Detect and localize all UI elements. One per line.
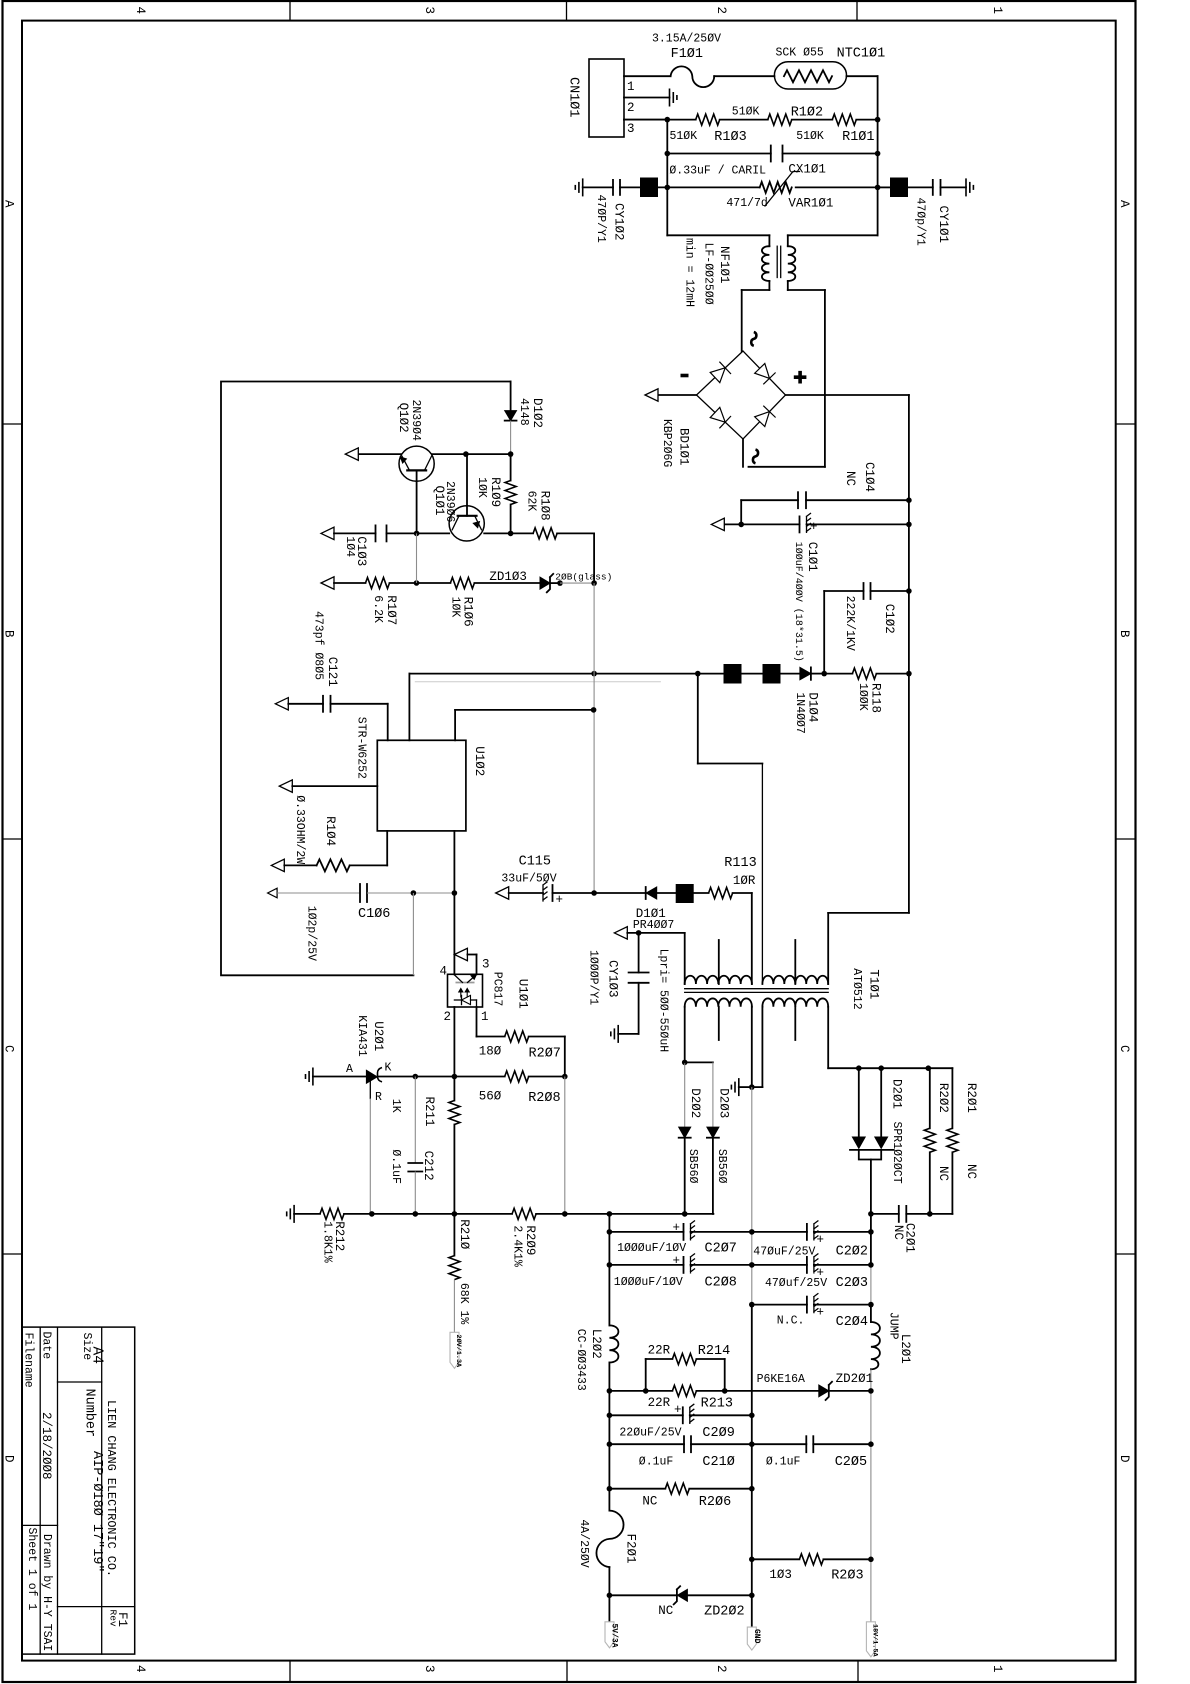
svg-text:CX1Ø1: CX1Ø1	[788, 163, 826, 177]
wire faint	[415, 681, 661, 683]
diode D104	[781, 667, 828, 733]
svg-text:1.8K1%: 1.8K1%	[321, 1221, 334, 1263]
svg-text:VAR1Ø1: VAR1Ø1	[788, 197, 833, 211]
dual diode D201	[850, 1068, 904, 1214]
svg-text:47ØP/Y1: 47ØP/Y1	[594, 195, 607, 243]
wire gnd bus	[749, 1087, 755, 1627]
ground CY103	[611, 1025, 618, 1043]
svg-text:NC: NC	[642, 1494, 657, 1508]
svg-text:Filename: Filename	[22, 1333, 35, 1388]
svg-text:Ø.1uF: Ø.1uF	[639, 1456, 674, 1469]
resistor R104	[271, 795, 387, 871]
svg-text:+: +	[817, 1233, 825, 1247]
wire U102 fb pin	[455, 707, 596, 740]
jumper blocks main row	[724, 664, 742, 684]
svg-text:B: B	[2, 630, 16, 638]
svg-text:+: +	[810, 520, 818, 534]
resistor R107	[334, 578, 450, 626]
resistor R208	[378, 1071, 568, 1106]
svg-text:SCK Ø55: SCK Ø55	[776, 47, 824, 60]
node U102 left pin	[279, 780, 377, 792]
svg-text:R2Ø6: R2Ø6	[699, 1495, 731, 1510]
capacitor C101	[741, 513, 909, 661]
svg-text:R118: R118	[869, 683, 883, 713]
svg-text:PC817: PC817	[491, 972, 504, 1007]
wire 18V bus	[868, 1214, 874, 1322]
svg-text:ZD2Ø1: ZD2Ø1	[836, 1372, 874, 1386]
svg-text:GND: GND	[752, 1629, 761, 1644]
svg-text:Date: Date	[40, 1332, 53, 1360]
transistor Q102	[396, 400, 434, 534]
ground CY102 side	[575, 178, 582, 196]
jumper block left	[640, 178, 658, 198]
svg-text:A4: A4	[89, 1347, 105, 1364]
node Q102 collector row	[345, 448, 513, 460]
svg-text:2N39Ø6: 2N39Ø6	[443, 481, 456, 523]
capacitor C115	[496, 855, 597, 908]
svg-text:D2Ø3: D2Ø3	[717, 1088, 731, 1118]
wire primary ground bus	[221, 382, 511, 976]
svg-text:51ØK: 51ØK	[670, 130, 698, 143]
svg-text:4: 4	[133, 1665, 147, 1673]
net tag 18V/1.5A	[866, 1622, 878, 1658]
resistor R214	[646, 1343, 731, 1391]
wire aux winding feed	[698, 674, 763, 984]
svg-text:51ØK: 51ØK	[732, 106, 760, 119]
svg-text:2N39Ø4: 2N39Ø4	[409, 400, 422, 442]
wire feedback vertical	[593, 583, 595, 893]
svg-text:3: 3	[627, 122, 635, 136]
svg-text:R1Ø8: R1Ø8	[538, 491, 552, 521]
svg-text:F1: F1	[115, 1612, 129, 1627]
capacitor CY102	[583, 180, 640, 243]
svg-text:2/18/2ØØ8: 2/18/2ØØ8	[39, 1412, 53, 1480]
svg-text:1K: 1K	[389, 1099, 402, 1113]
svg-text:D2Ø1: D2Ø1	[890, 1079, 904, 1109]
svg-text:6.2K: 6.2K	[371, 595, 384, 623]
svg-text:1Ø4: 1Ø4	[343, 536, 356, 557]
svg-text:2: 2	[444, 1010, 452, 1024]
pin 3	[624, 120, 667, 136]
svg-text:D2Ø2: D2Ø2	[688, 1088, 702, 1118]
net tag GND	[747, 1627, 761, 1650]
wire 18V output row	[868, 1211, 932, 1217]
svg-text:C1Ø6: C1Ø6	[358, 907, 390, 922]
svg-text:Ø.1uF: Ø.1uF	[766, 1456, 801, 1469]
svg-text:CC-ØØ3433: CC-ØØ3433	[574, 1329, 587, 1391]
svg-text:R213: R213	[701, 1396, 733, 1411]
svg-text:D1Ø2: D1Ø2	[530, 398, 544, 428]
svg-text:B: B	[1117, 630, 1131, 638]
svg-text:K: K	[385, 1062, 392, 1075]
svg-text:D1Ø4: D1Ø4	[806, 692, 820, 722]
ground R212	[287, 1205, 294, 1223]
resistor R109	[475, 454, 516, 536]
svg-text:D: D	[1117, 1455, 1131, 1463]
svg-text:C2Ø7: C2Ø7	[705, 1241, 737, 1256]
svg-text:CY1Ø2: CY1Ø2	[612, 203, 626, 241]
net tag 5V/3A	[605, 1622, 619, 1648]
svg-text:5V/3A: 5V/3A	[610, 1624, 619, 1648]
svg-text:NC: NC	[658, 1604, 673, 1618]
wire U102 drain pin	[408, 674, 410, 741]
svg-text:R2Ø2: R2Ø2	[936, 1083, 950, 1113]
diode D102	[505, 382, 544, 455]
thermistor NTC101	[774, 47, 885, 90]
svg-text:C1Ø1: C1Ø1	[805, 542, 819, 572]
svg-text:SB56Ø: SB56Ø	[715, 1149, 728, 1184]
svg-text:NC: NC	[891, 1225, 905, 1240]
svg-text:2: 2	[627, 101, 635, 115]
svg-text:+: +	[817, 1306, 825, 1320]
wire U102 vcc bus	[453, 831, 455, 974]
IC U102	[355, 717, 487, 831]
svg-text:U1Ø2: U1Ø2	[472, 746, 486, 776]
svg-text:2: 2	[714, 1665, 728, 1673]
svg-text:22ØuF/25V: 22ØuF/25V	[619, 1427, 681, 1440]
resistor R113	[694, 856, 757, 899]
node C101 arrow	[711, 518, 744, 530]
svg-text:L2Ø1: L2Ø1	[898, 1334, 912, 1364]
svg-text:C21Ø: C21Ø	[702, 1455, 734, 1470]
wire fb to output row	[564, 1077, 566, 1214]
svg-text:3.15A/25ØV: 3.15A/25ØV	[652, 33, 721, 46]
capacitor C121	[275, 611, 387, 740]
svg-text:SPR1Ø2ØCT: SPR1Ø2ØCT	[890, 1122, 903, 1184]
title block	[22, 1327, 135, 1654]
svg-text:F1Ø1: F1Ø1	[671, 47, 703, 62]
svg-text:CN1Ø1: CN1Ø1	[566, 77, 581, 118]
svg-text:SB56Ø: SB56Ø	[686, 1149, 699, 1184]
capacitor C209	[607, 1403, 752, 1441]
svg-text:ATØ512: ATØ512	[850, 968, 863, 1010]
svg-text:Drawn by H-Y TSAI: Drawn by H-Y TSAI	[40, 1534, 53, 1651]
wire U201 ref	[369, 1099, 371, 1215]
svg-text:ZD2Ø2: ZD2Ø2	[704, 1604, 745, 1619]
svg-text:4A/25ØV: 4A/25ØV	[577, 1519, 590, 1567]
svg-text:C: C	[1117, 1045, 1131, 1053]
svg-text:C121: C121	[325, 657, 339, 687]
svg-text:NC: NC	[936, 1166, 950, 1181]
wire opto pin2	[453, 1007, 455, 1077]
svg-text:Sheet 1 of 1: Sheet 1 of 1	[25, 1528, 38, 1611]
svg-text:NC: NC	[964, 1164, 978, 1179]
svg-text:33uF/5ØV: 33uF/5ØV	[501, 873, 556, 886]
svg-text:A: A	[1117, 200, 1131, 208]
svg-text:R: R	[375, 1091, 382, 1104]
svg-text:+: +	[673, 1221, 681, 1235]
pin 1	[624, 76, 671, 94]
capacitor CY103	[587, 933, 649, 1034]
svg-text:C2Ø5: C2Ø5	[835, 1455, 867, 1470]
svg-text:T1Ø1: T1Ø1	[866, 969, 880, 999]
varistor VAR101	[658, 172, 878, 211]
resistor R207	[477, 1007, 565, 1077]
svg-text:N.C.: N.C.	[777, 1315, 805, 1328]
svg-text:R1Ø9: R1Ø9	[488, 477, 502, 507]
svg-text:18Ø: 18Ø	[479, 1045, 502, 1059]
svg-text:Q1Ø2: Q1Ø2	[396, 403, 410, 433]
svg-text:CY1Ø3: CY1Ø3	[606, 960, 620, 998]
svg-text:4: 4	[133, 7, 147, 15]
svg-text:C: C	[2, 1045, 16, 1053]
svg-text:BD1Ø1: BD1Ø1	[677, 428, 691, 466]
svg-text:3: 3	[482, 958, 490, 972]
resistor R108	[525, 491, 595, 582]
svg-text:1ØR: 1ØR	[733, 874, 756, 888]
capacitor C207	[609, 1221, 751, 1257]
svg-text:18V/1.5A: 18V/1.5A	[870, 1624, 878, 1658]
svg-text:R214: R214	[698, 1344, 730, 1359]
capacitor C204	[752, 1294, 871, 1330]
svg-text:2ØV/1.3A: 2ØV/1.3A	[454, 1335, 463, 1369]
resistor R106	[449, 578, 541, 627]
svg-text:R1Ø6: R1Ø6	[461, 597, 475, 627]
svg-text:P6KE16A: P6KE16A	[757, 1373, 805, 1386]
svg-text:Lpri= 5ØØ-55ØuH: Lpri= 5ØØ-55ØuH	[657, 949, 670, 1053]
wire 5V bus	[607, 1214, 613, 1326]
svg-text:C212: C212	[421, 1151, 435, 1181]
wire Q102 base tap	[416, 533, 418, 583]
svg-text:4: 4	[440, 965, 448, 979]
svg-text:68K 1%: 68K 1%	[457, 1283, 470, 1325]
resistor R211	[389, 1077, 460, 1214]
resistor R101	[792, 114, 878, 145]
fuse F201	[577, 1511, 638, 1622]
wire C106 to ground bus	[412, 893, 414, 975]
svg-text:222K/1KV: 222K/1KV	[843, 596, 856, 651]
resistor R102	[720, 106, 823, 126]
wire plus output	[786, 394, 909, 396]
jumper block right	[890, 178, 908, 198]
svg-text:C2Ø9: C2Ø9	[702, 1426, 734, 1441]
node minus arrow	[645, 389, 697, 401]
svg-text:LIEN CHANG ELECTRONIC CO.: LIEN CHANG ELECTRONIC CO.	[104, 1400, 118, 1577]
opto U101 pin4 node	[440, 948, 490, 978]
svg-text:47Øp/Y1: 47Øp/Y1	[914, 198, 927, 246]
optocoupler U101 PC817	[444, 972, 530, 1024]
resistor R201	[947, 1068, 978, 1214]
svg-text:C2Ø8: C2Ø8	[705, 1276, 737, 1291]
wire right bus	[877, 76, 879, 235]
svg-text:1ØØØP/Y1: 1ØØØP/Y1	[587, 950, 600, 1005]
bridge BD101	[660, 332, 806, 467]
svg-text:R2Ø8: R2Ø8	[528, 1091, 560, 1106]
svg-text:R21Ø: R21Ø	[457, 1219, 471, 1250]
svg-text:C2Ø4: C2Ø4	[836, 1315, 868, 1330]
svg-text:1Ø3: 1Ø3	[769, 1568, 792, 1582]
wire to bridge ac1	[741, 290, 743, 351]
svg-text:D: D	[2, 1455, 16, 1463]
transformer T101	[657, 940, 881, 1052]
svg-text:LF-ØØ25ØØ: LF-ØØ25ØØ	[702, 243, 715, 305]
line filter NF101	[667, 235, 877, 307]
diode D202	[679, 1007, 702, 1214]
diode D101	[594, 887, 676, 932]
capacitor C205	[752, 1436, 871, 1470]
svg-text:+: +	[674, 1403, 682, 1417]
capacitor C203	[752, 1254, 871, 1291]
svg-text:R2Ø3: R2Ø3	[831, 1568, 863, 1583]
svg-text:473pf Ø8Ø5: 473pf Ø8Ø5	[312, 611, 325, 680]
svg-text:F2Ø1: F2Ø1	[624, 1534, 638, 1564]
resistor R209	[511, 1208, 714, 1267]
svg-text:C115: C115	[519, 855, 551, 870]
svg-text:2: 2	[714, 7, 728, 15]
svg-text:51ØK: 51ØK	[796, 130, 824, 143]
svg-text:3: 3	[422, 7, 436, 15]
svg-text:22R: 22R	[648, 1343, 671, 1357]
svg-text:3: 3	[422, 1665, 436, 1673]
svg-text:Ø.33OHM/2W: Ø.33OHM/2W	[293, 795, 306, 864]
fuse F101	[652, 33, 721, 88]
ground CY101 side	[966, 178, 973, 196]
capacitor C208	[609, 1254, 751, 1291]
capacitor C210	[607, 1436, 752, 1470]
connector CN101	[566, 59, 625, 137]
svg-text:1ØØØuF/1ØV: 1ØØØuF/1ØV	[614, 1276, 683, 1289]
svg-text:62K: 62K	[525, 491, 538, 512]
node C103 arrow	[321, 527, 334, 539]
zener ZD201	[757, 1372, 874, 1400]
resistor R213	[607, 1385, 819, 1411]
svg-text:STR-W6252: STR-W6252	[355, 717, 368, 779]
ground T101 center tap	[731, 1078, 738, 1096]
svg-text:JUMP: JUMP	[887, 1312, 900, 1340]
svg-text:NF1Ø1: NF1Ø1	[717, 246, 731, 284]
svg-text:R1Ø7: R1Ø7	[384, 595, 398, 625]
svg-text:R1Ø1: R1Ø1	[842, 130, 874, 145]
capacitor CY101	[878, 180, 966, 246]
svg-text:min = 12mH: min = 12mH	[683, 238, 696, 307]
svg-text:R1Ø2: R1Ø2	[791, 106, 823, 121]
svg-text:1ØØuF/4ØØV (18*31.5): 1ØØuF/4ØØV (18*31.5)	[792, 542, 804, 662]
resistor R210	[449, 1214, 471, 1332]
capacitor CX101	[667, 146, 877, 178]
svg-text:R1Ø4: R1Ø4	[323, 816, 337, 846]
svg-text:ZD1Ø3: ZD1Ø3	[489, 570, 527, 584]
net tag 20V/1.3A	[450, 1332, 463, 1368]
svg-text:R2Ø1: R2Ø1	[964, 1083, 978, 1113]
svg-text:C1Ø4: C1Ø4	[862, 462, 876, 492]
svg-text:L2Ø2: L2Ø2	[589, 1329, 603, 1359]
svg-text:A: A	[346, 1063, 353, 1076]
wire	[847, 75, 878, 77]
wire secondary center tap	[739, 1007, 763, 1090]
svg-text:1: 1	[990, 1665, 1004, 1673]
svg-text:47Øuf/25V: 47Øuf/25V	[765, 1277, 827, 1290]
svg-text:U1Ø1: U1Ø1	[516, 979, 530, 1009]
capacitor C103	[334, 525, 533, 566]
svg-text:1: 1	[627, 80, 635, 94]
svg-text:1ØØK: 1ØØK	[856, 683, 869, 711]
wire main DC row	[409, 671, 723, 677]
node dots input rows	[665, 117, 881, 190]
jumper block R113	[676, 884, 694, 903]
svg-text:KBP2Ø6G: KBP2Ø6G	[660, 419, 673, 467]
svg-text:C2Ø3: C2Ø3	[836, 1276, 868, 1291]
wire right HV bus	[908, 395, 910, 913]
wire to bridge ac2	[824, 290, 826, 467]
node R107 arrow	[321, 577, 334, 589]
svg-text:+: +	[556, 893, 564, 907]
svg-text:22R: 22R	[648, 1396, 671, 1410]
svg-text:AIP-Ø18Ø 17"19": AIP-Ø18Ø 17"19"	[89, 1451, 104, 1573]
svg-text:1: 1	[481, 1010, 489, 1024]
svg-text:CY1Ø1: CY1Ø1	[936, 206, 950, 244]
svg-text:C2Ø2: C2Ø2	[836, 1244, 868, 1259]
node CY103 arrow	[614, 927, 684, 984]
zener ZD103	[489, 570, 612, 592]
svg-text:56Ø: 56Ø	[479, 1090, 502, 1104]
capacitor C106	[268, 884, 458, 961]
resistor R212	[294, 1208, 512, 1262]
capacitor C201	[891, 1206, 952, 1253]
wire left vertical	[666, 120, 668, 236]
resistor R118	[824, 668, 909, 713]
svg-text:KIA431: KIA431	[355, 1015, 368, 1057]
resistor R103	[624, 114, 747, 145]
svg-text:PR4ØØ7: PR4ØØ7	[633, 919, 674, 932]
svg-text:C1Ø2: C1Ø2	[882, 604, 896, 634]
svg-text:R211: R211	[422, 1097, 436, 1127]
svg-text:R2Ø9: R2Ø9	[523, 1225, 537, 1255]
wire R113 to T101	[751, 893, 753, 984]
wire	[714, 75, 774, 77]
shunt regulator U201 KIA431	[313, 1015, 392, 1104]
ground U201	[306, 1068, 313, 1086]
svg-text:1N4ØØ7: 1N4ØØ7	[793, 692, 806, 733]
svg-text:1ØK: 1ØK	[475, 477, 488, 498]
capacitor C212	[389, 1077, 435, 1214]
svg-text:A: A	[2, 200, 16, 208]
svg-text:4148: 4148	[517, 398, 530, 426]
wire secondary 18V winding	[828, 1007, 952, 1071]
svg-text:1Ø2p/25V: 1Ø2p/25V	[305, 906, 318, 961]
svg-text:U2Ø1: U2Ø1	[371, 1021, 385, 1051]
svg-text:Ø.33uF / CARIL: Ø.33uF / CARIL	[669, 165, 766, 178]
svg-text:+: +	[673, 1254, 681, 1268]
svg-text:NC: NC	[843, 471, 857, 486]
resistor R202	[924, 1068, 950, 1214]
ground pin2	[670, 89, 677, 107]
resistor R203	[752, 1554, 871, 1584]
capacitor C202	[752, 1221, 871, 1259]
inductor L201	[868, 1312, 912, 1622]
svg-text:R113: R113	[724, 856, 756, 871]
svg-text:2ØB(glass): 2ØB(glass)	[555, 572, 612, 583]
svg-text:1: 1	[990, 7, 1004, 15]
resistor R206	[607, 1483, 752, 1510]
svg-text:2.4K1%: 2.4K1%	[511, 1225, 524, 1267]
svg-text:1ØK: 1ØK	[449, 597, 462, 618]
inductor L202	[574, 1325, 618, 1510]
diode D203	[685, 1062, 731, 1214]
svg-text:R2Ø7: R2Ø7	[529, 1046, 561, 1061]
transistor Q101	[432, 454, 484, 541]
svg-text:Ø.1uF: Ø.1uF	[389, 1149, 402, 1184]
pin 2	[624, 98, 670, 116]
svg-text:1ØØØuF/1ØV: 1ØØØuF/1ØV	[617, 1242, 686, 1255]
svg-text:R1Ø3: R1Ø3	[714, 130, 746, 145]
capacitor C102	[824, 583, 909, 674]
zener ZD202	[609, 1586, 751, 1619]
svg-text:Number: Number	[82, 1389, 97, 1438]
svg-text:NTC1Ø1: NTC1Ø1	[837, 47, 886, 62]
capacitor C104	[741, 462, 909, 524]
wire T101 primary right to bus	[828, 913, 909, 984]
svg-text:471/7d: 471/7d	[726, 197, 767, 210]
